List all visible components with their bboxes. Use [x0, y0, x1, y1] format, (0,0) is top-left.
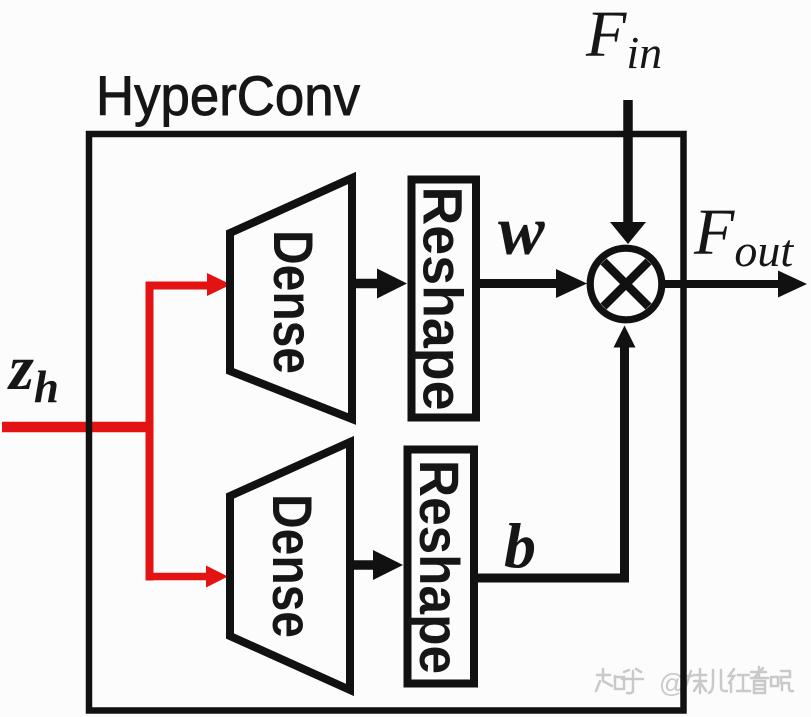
- arrowhead red into Dense top: [207, 273, 231, 296]
- svg-text:Dense: Dense: [261, 494, 324, 638]
- wire zh red input line: [2, 422, 153, 433]
- block Reshape bottom R2: [408, 450, 475, 684]
- char hong: [729, 669, 750, 692]
- wire Dense2 to Reshape2: [350, 560, 376, 570]
- wire w from Reshape1 to multiplier: [476, 279, 558, 288]
- arrowhead into Reshape1: [377, 269, 407, 299]
- wire Fout output: [661, 280, 780, 288]
- wire b from Reshape2 right then up to multiplier: [474, 347, 625, 578]
- arrowhead b into multiplier bottom: [614, 326, 636, 348]
- wire red bottom branch: [146, 573, 207, 581]
- svg-text:w: w: [498, 193, 545, 270]
- wire red branch vertical with top corner: [150, 286, 209, 581]
- char zhe: [751, 667, 768, 693]
- block HyperConv outer box: [89, 134, 684, 711]
- char mei: [681, 669, 706, 693]
- char hu: [622, 669, 643, 693]
- wire Dense1 to Reshape1: [352, 279, 380, 289]
- wire Fin input vertical: [623, 100, 633, 223]
- char ne: [771, 671, 793, 691]
- arrowhead red into Dense bottom: [206, 566, 228, 588]
- block Dense bottom trapezoid D2: [230, 442, 350, 690]
- svg-text:Reshape: Reshape: [412, 187, 475, 411]
- svg-text:Reshape: Reshape: [408, 460, 471, 674]
- char er: [709, 670, 727, 693]
- block Dense top trapezoid D1: [230, 178, 352, 419]
- arrowhead Fin into multiplier top: [610, 222, 646, 244]
- arrowhead into Reshape2: [373, 550, 403, 580]
- multiplier cross X: [604, 262, 649, 307]
- svg-text:b: b: [504, 510, 536, 581]
- node multiplier circle: [590, 248, 662, 320]
- svg-text:Dense: Dense: [262, 230, 325, 374]
- watermark zhihu: [596, 669, 643, 693]
- char zhi: [596, 669, 624, 691]
- arrowhead Fout: [778, 271, 807, 298]
- arrowhead w into multiplier: [556, 269, 587, 298]
- svg-text:HyperConv: HyperConv: [96, 64, 360, 127]
- block Reshape top R1: [412, 180, 477, 418]
